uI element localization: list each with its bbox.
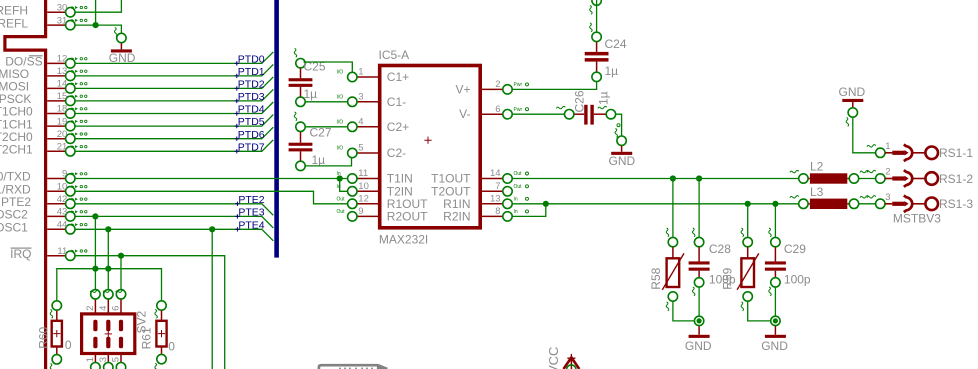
svg-text:3: 3 — [358, 91, 363, 102]
svg-text:R2OUT: R2OUT — [387, 209, 428, 223]
MCU pin 44 (/OSC1) — [47, 228, 65, 230]
svg-text:PTE2: PTE2 — [238, 194, 264, 206]
svg-text:4: 4 — [98, 306, 109, 311]
svg-text:5: 5 — [111, 357, 122, 362]
SV2 pin 4 — [107, 300, 109, 314]
svg-text:10: 10 — [57, 182, 68, 193]
MCU pin 12 (DO/SS) — [47, 62, 65, 64]
svg-text:PTE4: PTE4 — [238, 219, 264, 231]
svg-text:C28: C28 — [709, 242, 731, 256]
wire branch T1OUT down to C28 — [698, 179, 700, 237]
MCU pin 31 (VREFL) — [47, 24, 65, 26]
svg-text:43: 43 — [57, 207, 68, 218]
MCU pin 9 (0/TXD) — [47, 178, 65, 180]
wire branch R1IN down to R59 — [747, 204, 749, 237]
svg-text:PTD3: PTD3 — [238, 91, 265, 103]
junction on PTE3 net — [92, 213, 98, 219]
IC5 pin 6 (V-) — [480, 113, 502, 115]
svg-text:13: 13 — [490, 193, 501, 204]
wire net PTD1 from MCU pin to bus — [76, 64, 274, 76]
svg-text:PTD5: PTD5 — [238, 116, 265, 128]
MCU pin 18 (T1CH0) — [47, 113, 65, 115]
svg-text:L2: L2 — [810, 160, 824, 174]
header SV2 (3x2 pin header) — [82, 314, 135, 354]
svg-text:19: 19 — [57, 116, 68, 127]
svg-text:Pwr: Pwr — [514, 82, 523, 88]
wire C25 top to IC5 pin 1 (C1+) — [304, 62, 353, 72]
svg-text:VCC: VCC — [546, 347, 561, 369]
junction on PTE4 net at right branch — [209, 226, 215, 232]
capacitor C29 — [771, 237, 780, 246]
svg-text:0: 0 — [65, 338, 72, 352]
MCU pin 19 (T1CH1) — [47, 125, 65, 127]
svg-text:In: In — [337, 171, 341, 177]
MCU pin 43 (/OSC2) — [47, 215, 65, 217]
svg-text:PTD2: PTD2 — [238, 79, 265, 91]
capacitor C24 — [592, 32, 601, 41]
svg-text:1: 1 — [885, 141, 890, 152]
wire C26 to ground — [616, 114, 622, 135]
svg-text:V-: V- — [459, 107, 470, 121]
svg-text:8: 8 — [495, 206, 500, 217]
wire net PTD4 from MCU pin to bus — [76, 102, 274, 114]
svg-text:R2IN: R2IN — [443, 209, 470, 223]
varistor R59 — [743, 237, 752, 246]
svg-text:7: 7 — [495, 181, 500, 192]
IC5 pin 13 (R1IN) — [480, 203, 502, 205]
svg-text:2: 2 — [495, 79, 500, 90]
ground symbol GND (below C28) — [694, 316, 703, 325]
varistor R58 — [668, 237, 677, 246]
svg-text:VREFH: VREFH — [0, 3, 28, 17]
wire C27 top to IC5 pin 4 (C2+) — [306, 126, 347, 128]
wire R58 to ground — [673, 302, 694, 321]
MCU pin 30 (VREFH) — [47, 11, 65, 13]
svg-text:GND: GND — [109, 51, 136, 65]
svg-text:RS1-3: RS1-3 — [939, 197, 973, 211]
svg-text:C1-: C1- — [387, 95, 406, 109]
connector pin RS1-2 — [876, 174, 885, 183]
svg-text:I/O: I/O — [337, 119, 344, 125]
IC5 pin 2 (V+) — [480, 88, 502, 90]
wire from MCU pin 31 to GND symbol — [76, 25, 122, 33]
MCU pin 42 (PTE2) — [47, 203, 65, 205]
MCU pin 13 (/MISO) — [47, 75, 65, 77]
ground symbol GND (top left) — [117, 33, 126, 42]
IC5 pin 14 (T1OUT) — [480, 178, 502, 180]
IC5 pin 11 (T1IN) — [358, 178, 380, 180]
junction R1IN/R59 — [745, 201, 751, 207]
IC5 pin 12 (R1OUT) — [358, 203, 380, 205]
wire C29 to ground — [774, 288, 776, 316]
IC5 pin 3 (C1-) — [358, 101, 380, 103]
svg-text:1µ: 1µ — [304, 87, 318, 101]
svg-text:11: 11 — [57, 246, 67, 257]
svg-text:I/O: I/O — [337, 94, 344, 100]
svg-text:Out: Out — [514, 171, 523, 177]
connector pin RS1-1 — [876, 148, 885, 157]
svg-text:C2-: C2- — [387, 146, 406, 160]
svg-text:18: 18 — [57, 104, 68, 115]
svg-text:Pwr: Pwr — [514, 107, 523, 113]
svg-text:1µ: 1µ — [312, 153, 326, 167]
svg-text:PTD0: PTD0 — [238, 54, 265, 66]
svg-text:GND: GND — [839, 85, 866, 99]
svg-text:9: 9 — [62, 169, 67, 180]
svg-text:20: 20 — [57, 129, 68, 140]
capacitor C28 — [694, 237, 703, 246]
junction R1IN/R2IN link — [543, 201, 549, 207]
connector pin RS1-3 — [876, 199, 885, 208]
MCU pin 20 (T2CH0) — [47, 138, 65, 140]
SV2 pin 5 — [120, 354, 122, 363]
IC5 pin 1 (C1+) — [358, 76, 380, 78]
MCU pin 21 (T2CH1) — [47, 150, 65, 152]
svg-text:1µ: 1µ — [597, 91, 611, 105]
svg-text:C27: C27 — [310, 126, 332, 140]
junction oscillator link / PTE3 branch — [92, 266, 98, 272]
wire net V+ from IC5 pin 2 to C24 — [513, 82, 597, 89]
capacitor C26 — [565, 110, 574, 119]
bus (vertical navy) — [274, 0, 279, 258]
wire link from IC5 pin 8 (R2IN) — [513, 204, 546, 217]
svg-text:5: 5 — [358, 143, 363, 154]
svg-text:10: 10 — [358, 181, 369, 192]
svg-text:/OSC1: /OSC1 — [0, 221, 28, 235]
wire net V- from IC5 pin 6 to C26 — [513, 113, 564, 115]
svg-text:In: In — [337, 184, 341, 190]
svg-text:3: 3 — [885, 192, 890, 203]
svg-text:6: 6 — [495, 104, 500, 115]
svg-text:12: 12 — [57, 54, 68, 65]
svg-text:11: 11 — [358, 168, 368, 179]
SV2 pin 2 — [94, 300, 96, 314]
svg-text:IC5-A: IC5-A — [379, 48, 410, 62]
svg-text:PTD7: PTD7 — [238, 141, 265, 153]
inductor L2 (ferrite bead) — [799, 174, 808, 183]
svg-text:3: 3 — [98, 357, 109, 362]
SV2 pin 1 — [94, 354, 96, 363]
wire oscillator link across jumpers — [57, 269, 162, 301]
svg-text:PTD6: PTD6 — [238, 129, 265, 141]
wire branch TXD to IC5 T2IN — [340, 179, 347, 192]
SV2 pin 6 — [120, 300, 122, 314]
svg-text:1: 1 — [358, 67, 363, 78]
svg-text:14: 14 — [490, 168, 501, 179]
wire PTE3 branch down to header — [94, 216, 96, 268]
svg-text:30: 30 — [57, 2, 68, 13]
pin stub entering from top edge (net to C24) — [592, 0, 601, 5]
svg-text:Out: Out — [337, 209, 346, 215]
svg-text:21: 21 — [57, 142, 68, 153]
svg-text:PTD1: PTD1 — [238, 66, 265, 78]
MCU pin 10 (1/RXD) — [47, 190, 65, 192]
svg-text:9: 9 — [358, 206, 363, 217]
wire net PTE4 (/OSC1) from MCU pin 44 to bus — [76, 229, 274, 241]
svg-text:L3: L3 — [810, 185, 824, 199]
svg-text:100p: 100p — [784, 272, 811, 286]
MCU pin 11 (IRQ) — [47, 255, 65, 257]
wire net PTE3 (/OSC2) from MCU pin 43 to bus — [76, 216, 274, 228]
svg-text:Out: Out — [514, 184, 523, 190]
wire PTE4 branch down to header — [107, 229, 109, 268]
svg-text:C24: C24 — [605, 37, 627, 51]
wire net PTD2 from MCU pin to bus — [76, 77, 274, 89]
wire PTE3 branch to header pin 2 — [94, 269, 96, 289]
wire R59 to ground — [748, 302, 771, 321]
wire branch R1IN down to C29 — [774, 204, 776, 237]
svg-text:1µ: 1µ — [605, 64, 619, 78]
wire PTE4 branch to header pin 4 — [107, 269, 109, 289]
wire IRQ branch down to header pin 6 — [120, 256, 122, 289]
wire net PTD0 from MCU pin to bus — [76, 52, 274, 64]
wire net R1IN from IC5 pin 13 to L3 — [513, 203, 799, 205]
IC5 pin 10 (T2IN) — [358, 190, 380, 192]
wire from MCU pin 30 up to top edge — [76, 0, 122, 12]
wire net PTE2 from MCU pin 42 to bus — [76, 204, 274, 216]
IC5 pin 8 (R2IN) — [480, 215, 502, 217]
wire L3 to RS1-3 — [859, 203, 875, 205]
wire GND to RS1-1 — [853, 118, 875, 153]
wire C28 to ground — [698, 288, 700, 316]
wire from top edge to C24 — [596, 0, 598, 32]
junction on IRQ net — [118, 253, 124, 259]
wire PTE4 branch down to bottom edge — [211, 229, 213, 369]
svg-text:R59: R59 — [721, 267, 735, 289]
SV2 pin 3 — [107, 354, 109, 363]
svg-text:RS1-1: RS1-1 — [939, 146, 973, 160]
wire net PTD6 from MCU pin to bus — [76, 127, 274, 139]
svg-text:/OSC2: /OSC2 — [0, 208, 28, 222]
IC5 pin 9 (R2OUT) — [358, 215, 380, 217]
wire branch T1OUT down to R58 — [672, 179, 674, 237]
svg-text:R58: R58 — [649, 267, 663, 289]
svg-text:IRQ: IRQ — [10, 247, 31, 261]
resistor R61 — [157, 301, 166, 310]
ground symbol GND (below C26) — [617, 136, 626, 145]
svg-text:GND: GND — [685, 339, 712, 353]
svg-text:C29: C29 — [784, 242, 806, 256]
svg-text:13: 13 — [57, 66, 68, 77]
junction R1IN/C29 — [772, 201, 778, 207]
wire C25 bottom to IC5 pin 3 (C1-) — [306, 101, 347, 103]
svg-text:15: 15 — [57, 91, 68, 102]
svg-text:R60: R60 — [37, 326, 51, 348]
svg-text:C2+: C2+ — [387, 120, 409, 134]
sheet flag label (clipped at bottom edge) — [319, 365, 387, 369]
wire net PTD5 from MCU pin to bus — [76, 115, 274, 127]
svg-text:C1+: C1+ — [387, 70, 409, 84]
wire net PTD3 from MCU pin to bus — [76, 89, 274, 101]
svg-text:I/O: I/O — [337, 146, 344, 152]
capacitor C25 — [296, 59, 305, 68]
capacitor C27 — [296, 122, 305, 131]
svg-text:VREFL: VREFL — [0, 16, 28, 30]
IC5 pin 7 (T2OUT) — [480, 190, 502, 192]
IC5 pin 5 (C2-) — [358, 152, 380, 154]
junction on TXD net — [337, 175, 343, 181]
svg-text:14: 14 — [57, 79, 68, 90]
wire L2 to RS1-2 — [859, 178, 875, 180]
wire net PTD7 from MCU pin to bus — [76, 140, 274, 152]
wire vertical from top edge to pin 31 net — [95, 0, 97, 25]
MCU pin 14 (/MOSI) — [47, 87, 65, 89]
wire net T1OUT from IC5 pin 14 to L2 — [513, 178, 799, 180]
svg-text:MAX232I: MAX232I — [379, 232, 428, 246]
junction T1OUT/C28 — [696, 175, 702, 181]
svg-text:31: 31 — [57, 15, 68, 26]
ground symbol GND (below C29) — [771, 316, 780, 325]
wire net IRQ from MCU pin 11 — [76, 256, 225, 369]
IC5 pin 4 (C2+) — [358, 126, 380, 128]
wire C27 bottom to IC5 pin 5 (C2-) — [306, 158, 352, 166]
svg-text:GND: GND — [609, 154, 636, 168]
svg-text:PTE3: PTE3 — [238, 207, 264, 219]
svg-text:SV2: SV2 — [135, 310, 149, 333]
svg-text:In: In — [514, 196, 518, 202]
MCU IC body outline (partial, clipped at left edge) — [5, 0, 46, 369]
junction oscillator link / PTE4 branch — [105, 266, 111, 272]
svg-text:RS1-2: RS1-2 — [939, 172, 973, 186]
svg-text:In: In — [514, 209, 518, 215]
svg-text:44: 44 — [57, 220, 68, 231]
svg-text:V+: V+ — [455, 82, 470, 96]
svg-text:6: 6 — [111, 306, 122, 311]
inductor L3 (ferrite bead) — [799, 199, 808, 208]
wire net RXD from MCU pin 10 to IC5 R1OUT — [76, 191, 348, 204]
svg-text:PTD4: PTD4 — [238, 104, 265, 116]
svg-text:42: 42 — [57, 194, 68, 205]
svg-text:1: 1 — [85, 357, 96, 362]
svg-text:0: 0 — [168, 340, 175, 354]
junction on pin 31 net — [93, 22, 99, 28]
junction on PTE4 net at header branch — [105, 226, 111, 232]
svg-text:12: 12 — [358, 193, 369, 204]
svg-text:GND: GND — [761, 339, 788, 353]
op-amp/driver IC5-A MAX232I body — [380, 66, 481, 228]
svg-text:MSTBV3: MSTBV3 — [893, 211, 941, 225]
svg-text:T2CH1: T2CH1 — [0, 143, 33, 157]
MCU pin 15 (SPSCK) — [47, 100, 65, 102]
svg-text:C26: C26 — [573, 90, 587, 112]
svg-text:Out: Out — [337, 196, 346, 202]
junction T1OUT/R58 — [670, 175, 676, 181]
wire net TXD from MCU pin 9 to IC5 T1IN — [76, 178, 348, 180]
svg-text:2: 2 — [85, 306, 96, 311]
svg-text:2: 2 — [885, 167, 890, 178]
resistor R60 — [52, 301, 61, 310]
svg-text:4: 4 — [358, 116, 363, 127]
svg-text:I/O: I/O — [337, 70, 344, 76]
